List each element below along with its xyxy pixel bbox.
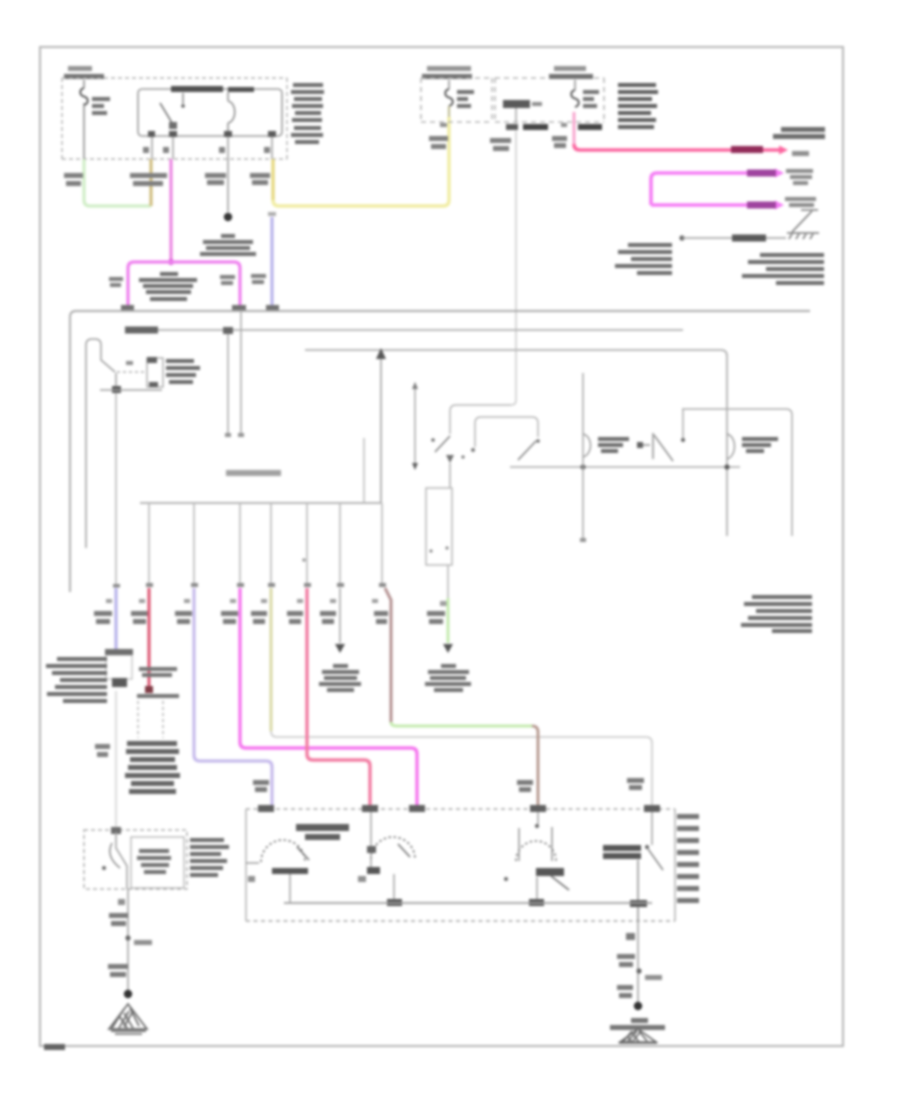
wire BK to ground arrow — [339, 588, 341, 643]
red wire end cap — [145, 686, 153, 693]
park switch arc 3 — [504, 812, 569, 906]
fuse F2 connector label — [429, 136, 448, 149]
pin ticks at wire tops — [113, 583, 386, 588]
wire RD red (washer pump feed) — [147, 588, 150, 690]
relay pin blobs — [148, 131, 276, 137]
relay K1 box — [138, 89, 282, 136]
fuse F1 — [80, 80, 88, 159]
contact dots B — [461, 448, 475, 459]
drop label blob (grey right) — [627, 778, 644, 790]
ground label right — [610, 1018, 665, 1030]
note text left of ground lead — [615, 243, 672, 275]
curved wire A from F3 — [450, 405, 511, 434]
wire YE yellow run to fuse box 2 — [273, 117, 449, 206]
multifunction switch lever — [102, 843, 120, 870]
ground arrowhead 2 — [443, 644, 453, 653]
vertical from bus2 a — [223, 327, 233, 437]
ground junction dot left — [124, 990, 132, 998]
wire from F3 (light grey) — [511, 131, 516, 405]
magenta top arrowhead — [775, 169, 784, 178]
washer switch text block (left) — [46, 657, 107, 703]
note text right bottom — [742, 253, 824, 285]
wire GN/YE khaki — [270, 588, 273, 731]
washer relay pin labels — [109, 275, 235, 287]
fuse F1 value label — [92, 97, 110, 115]
stalk bottom rail — [100, 389, 162, 391]
wiper motor entry blobs — [258, 805, 660, 812]
wire BK grey drop — [227, 159, 229, 212]
vertical from bus1 b — [238, 311, 244, 437]
washer pump dashed body — [138, 701, 163, 738]
cartridge fuse F3 — [503, 100, 542, 108]
wire BU blue (to washer switch connector) — [114, 588, 117, 649]
wire RD arrowhead — [779, 146, 788, 155]
fuse F4 connector label dark — [578, 124, 602, 130]
chassis ground symbol left — [109, 1004, 147, 1034]
wire RD/pink riser from F4 — [573, 112, 576, 144]
fuse F4 — [571, 80, 579, 107]
washer relay leg connector blobs — [121, 305, 246, 312]
relay K1 coil — [228, 92, 235, 136]
washer relay junction dot — [168, 259, 174, 265]
relay K1 name label — [171, 86, 254, 92]
speed track arc 1 — [246, 840, 309, 903]
right switch assembly — [637, 409, 685, 461]
wire VT magenta long jog — [240, 588, 417, 807]
loop on right vertical — [727, 434, 735, 459]
dashed link to switch box — [117, 371, 145, 373]
washer pump text block — [125, 741, 180, 794]
small switch box pin tick — [126, 361, 133, 365]
ground reference text 2 — [425, 664, 471, 692]
wire VT magenta (to washer relay) — [169, 159, 172, 260]
drop label blob (lavender) — [253, 780, 269, 792]
switch contact A — [431, 436, 450, 452]
fuse F2 pin tick — [440, 123, 447, 127]
footer mark — [44, 1044, 65, 1050]
bus line 3 — [305, 350, 727, 536]
speed track arc 2 — [358, 812, 415, 906]
inner stub vertical — [363, 438, 365, 503]
blue wire label — [251, 274, 266, 284]
splice note text — [200, 234, 256, 256]
label HOT AT ALL TIMES (left) — [64, 66, 104, 79]
chassis ground symbol right — [619, 1029, 657, 1043]
electronics box right edge — [380, 352, 382, 503]
magenta arrow labels — [785, 169, 816, 207]
washer relay magenta loop — [128, 262, 240, 309]
washer relay text — [139, 272, 197, 301]
arrow target label — [792, 151, 809, 156]
arrowhead down A — [446, 455, 454, 463]
motor switch arm — [645, 812, 663, 870]
magenta bottom arrowhead — [775, 201, 784, 210]
motor lead vertical with loop — [580, 373, 591, 542]
wire OG orange — [149, 159, 152, 206]
multifunction entry blob — [111, 827, 121, 834]
brown drop to wiper motor — [532, 726, 538, 807]
fuse F4 pin tick — [561, 123, 567, 127]
stub into resistor box — [449, 463, 451, 488]
wire maroon drop — [385, 588, 391, 722]
stub from resistor box — [447, 565, 449, 598]
multifunction inner box — [131, 837, 184, 888]
label above pink arrow — [773, 127, 825, 139]
blue wire connector blob — [266, 305, 279, 312]
note text block (right middle) — [741, 595, 812, 633]
splice dot S1 — [224, 213, 232, 221]
chassis ground symbol (top right) — [787, 210, 819, 239]
fuse F3 pin stub — [515, 108, 517, 123]
switch arm B — [518, 439, 540, 460]
fuse box 3 (dashed) — [495, 78, 604, 122]
relay K1 switch arm — [160, 103, 177, 129]
drop label blob (brown) — [517, 780, 533, 792]
magenta dark label overlays — [747, 170, 776, 209]
wire PK crimson jog — [307, 588, 370, 807]
junction box label (right of box1) — [291, 83, 324, 144]
ground drop left marks — [108, 899, 152, 977]
magenta loop top run — [651, 173, 775, 205]
smart junction box text block — [618, 83, 658, 129]
stalk junction — [112, 373, 121, 393]
ground drop right marks — [617, 933, 662, 998]
wire RD dark label overlay — [731, 146, 763, 153]
battery junction box 1 (dashed) — [62, 78, 287, 159]
wire label blobs row — [94, 611, 445, 624]
wire BU/VT lavender with jog — [194, 588, 272, 807]
relay feed line y409 — [682, 409, 792, 536]
label HOT AT ALL TIMES (middle) — [549, 66, 593, 79]
ground reference text 1 — [319, 664, 361, 692]
washer pump labels — [137, 667, 179, 698]
grey continuation of khaki — [271, 731, 652, 807]
bus line 1 with left drop — [70, 311, 810, 592]
ground drop left — [127, 889, 129, 991]
magenta bottom run — [651, 203, 775, 207]
wire GN short green — [447, 598, 450, 643]
fuse box 2 (dashed) — [421, 78, 492, 122]
electronics box bottom edge — [140, 502, 381, 504]
wiper motor internal bus — [284, 902, 652, 904]
fuse F2 value label — [457, 90, 474, 108]
wire RD hot pink run — [574, 144, 779, 150]
resistor box — [426, 488, 452, 565]
bus line 2 — [126, 329, 683, 331]
ground junction dot right — [634, 1002, 642, 1010]
wire GN green L — [84, 159, 151, 206]
green run from maroon — [391, 722, 532, 726]
junction dots on y467 — [580, 464, 729, 469]
fuse F2 — [445, 80, 453, 117]
fuse F3 connector label — [490, 138, 511, 151]
multifunction switch box (dashed) — [84, 830, 187, 889]
loop label a — [598, 437, 629, 453]
ground lead wire with dot — [679, 235, 786, 242]
ground arrowhead 1 — [335, 644, 345, 653]
multifunction inner text — [137, 849, 171, 874]
curved wire B — [475, 417, 538, 447]
bus line 2 dark label segment — [125, 327, 158, 334]
fuse F4 wire label blob — [552, 136, 567, 148]
small switch box — [147, 357, 163, 387]
wire label blobs below box1 — [64, 173, 270, 186]
jog wire through switch — [116, 832, 127, 889]
relay K1 switch pin stub — [181, 93, 185, 108]
pin stubs below electronics box — [149, 503, 382, 585]
motor element — [603, 845, 641, 859]
tiny pin numbers — [106, 599, 447, 606]
wiper motor box — [246, 809, 675, 921]
horizontal link y467 — [510, 466, 740, 468]
floating wire with arrows — [412, 382, 418, 470]
left stalk component: inverted U — [86, 339, 115, 548]
pin stubs to dashed edge — [152, 137, 272, 159]
wire YE yellow riser — [271, 159, 274, 200]
relay pin numbers — [143, 147, 270, 153]
electronics label — [226, 470, 281, 476]
stray dot — [302, 558, 306, 562]
pale wire label — [95, 744, 110, 757]
inline connector C (blue wire) — [105, 649, 133, 687]
loop label b — [742, 437, 778, 453]
wire WH/BU long drop — [115, 393, 117, 585]
wiper motor name label — [296, 824, 349, 840]
fuse F3 connector mark — [506, 124, 548, 130]
multifunction right text — [190, 838, 229, 877]
wire WH pale drop — [115, 691, 117, 830]
fuse F4 value label — [583, 90, 599, 108]
label HOT IN ACC OR RUN — [422, 66, 472, 79]
motor output wire — [630, 860, 647, 921]
ground drop right — [637, 921, 639, 1003]
switch box text — [166, 359, 200, 384]
connector pin stack — [677, 814, 699, 903]
up arrow junction on bus3 — [376, 348, 386, 359]
wire BU blue drop — [268, 212, 276, 308]
